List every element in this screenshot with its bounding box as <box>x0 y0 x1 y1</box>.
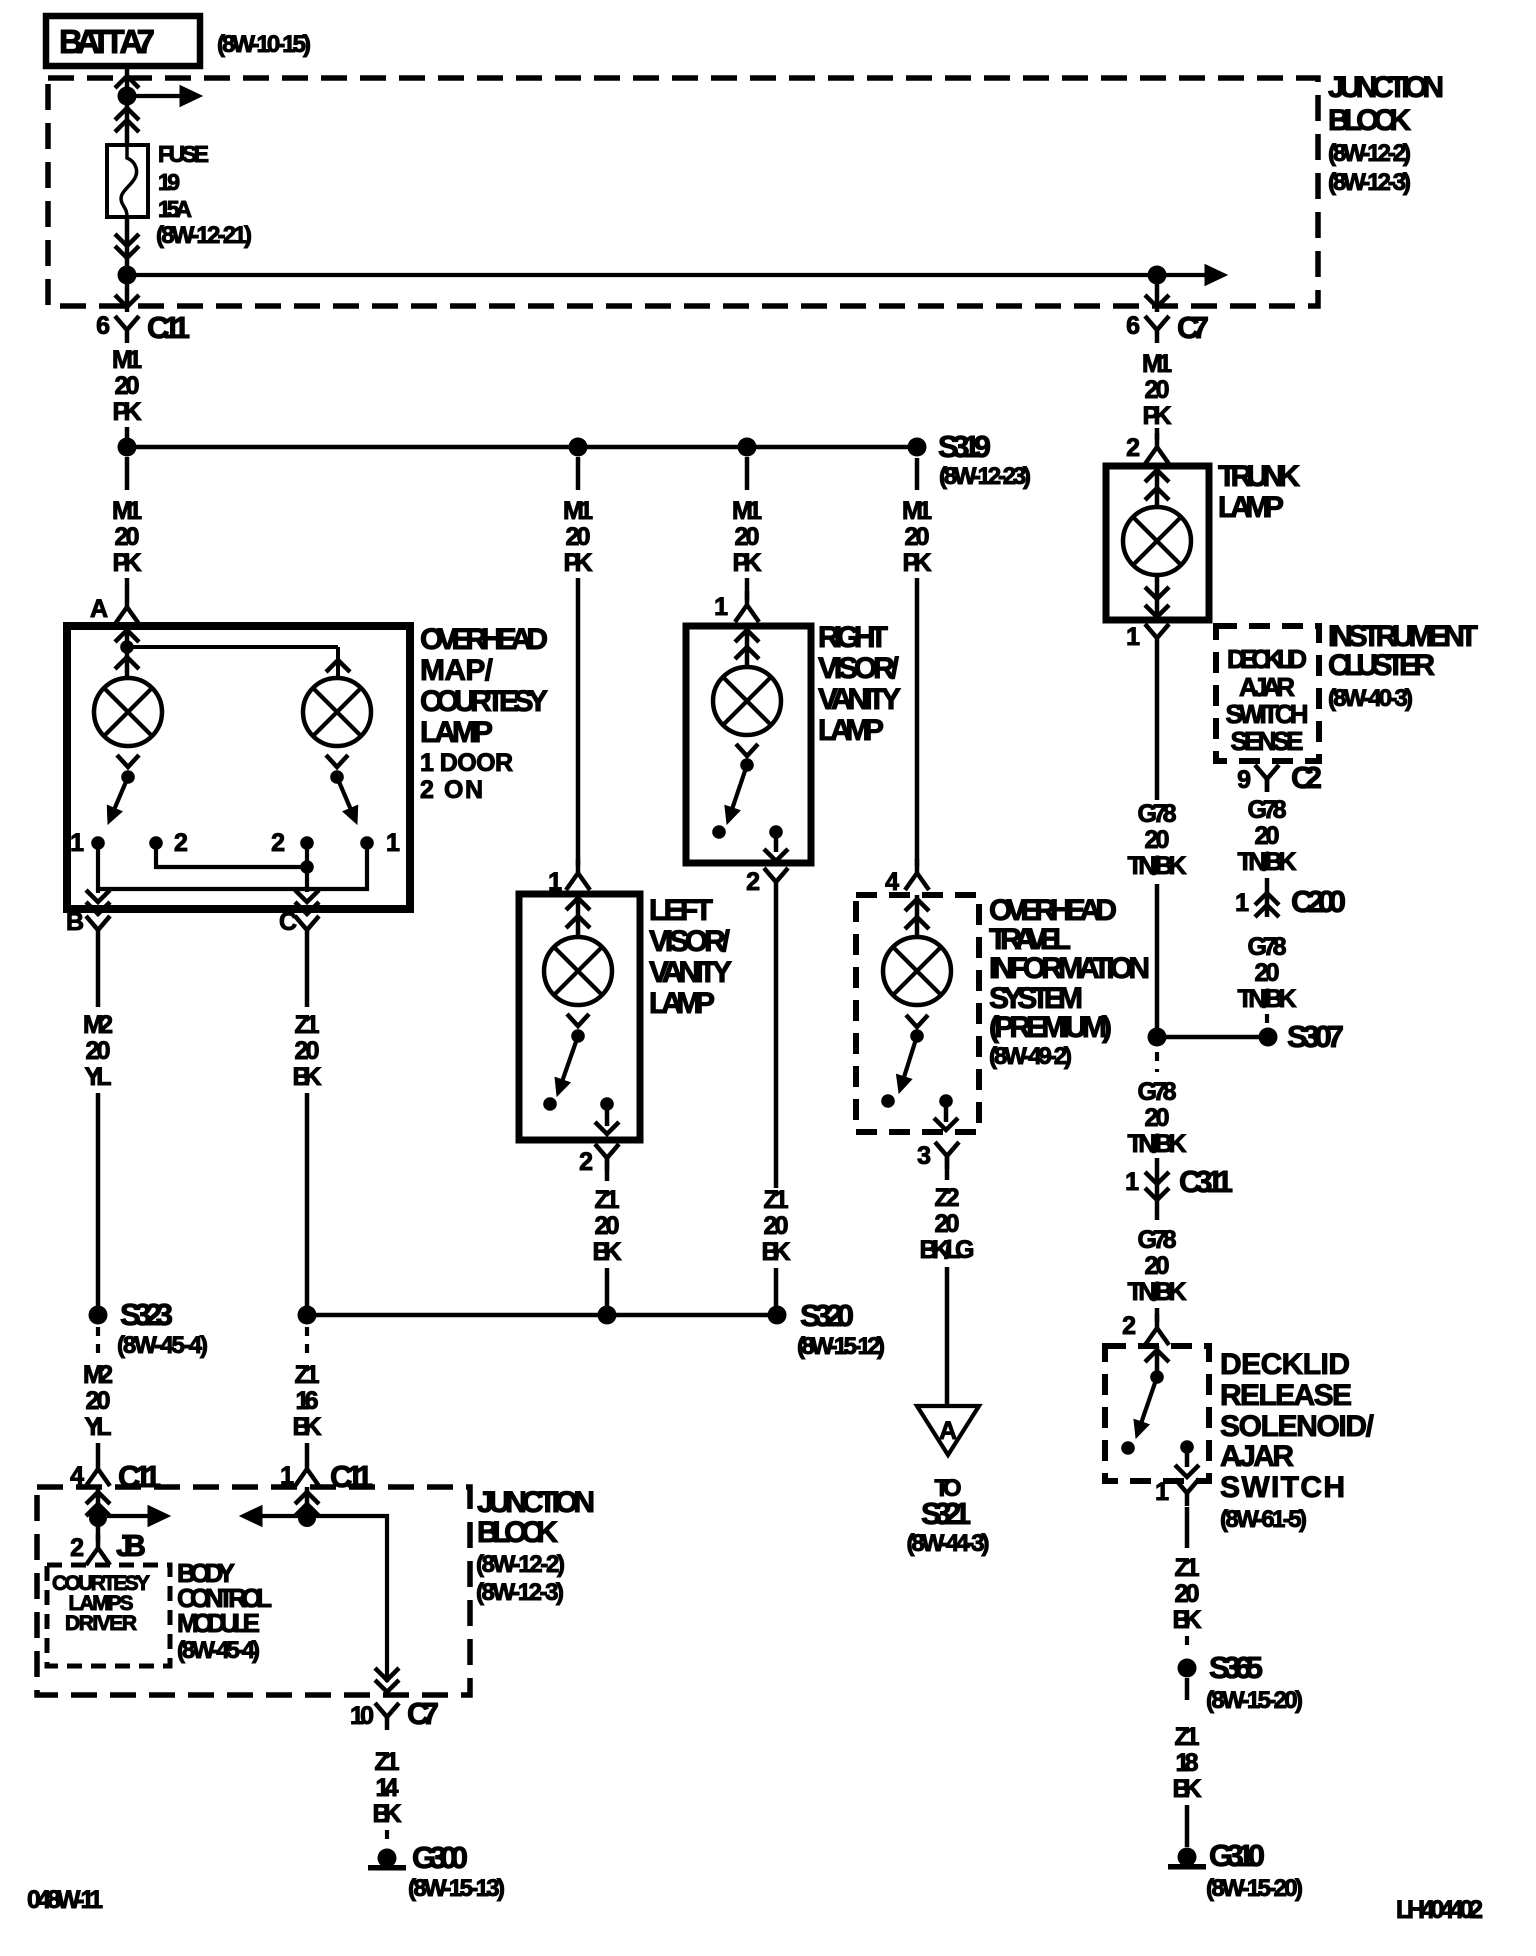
splice S365 <box>1178 1659 1197 1678</box>
svg-text:(8W-12-2): (8W-12-2) <box>1328 140 1411 167</box>
wire right visor to splice S320 <box>774 1268 779 1306</box>
splice bus M1 20 PK <box>127 445 917 450</box>
svg-text:PK: PK <box>564 549 593 577</box>
svg-text:S320: S320 <box>800 1298 854 1333</box>
svg-text:Z1: Z1 <box>764 1186 789 1214</box>
svg-text:VANITY: VANITY <box>649 956 732 989</box>
wire bus to right visor lamp <box>745 457 750 490</box>
svg-text:MAP/: MAP/ <box>420 654 494 687</box>
svg-text:G78: G78 <box>1138 1226 1177 1254</box>
svg-text:(8W-44-3): (8W-44-3) <box>907 1530 990 1557</box>
svg-text:(8W-12-23): (8W-12-23) <box>939 463 1031 490</box>
svg-text:TN/BK: TN/BK <box>1128 1130 1187 1158</box>
wire (dashed) to S307 <box>1265 1014 1269 1027</box>
svg-text:BK: BK <box>762 1238 791 1266</box>
instrument cluster dashed box <box>1216 626 1319 761</box>
internal chevron above node <box>115 630 139 642</box>
svg-text:BLOCK: BLOCK <box>1328 104 1411 137</box>
svg-text:Z1: Z1 <box>295 1011 320 1039</box>
svg-text:20: 20 <box>1145 1252 1170 1280</box>
wire B down <box>96 943 101 1007</box>
svg-text:C7: C7 <box>407 1696 439 1731</box>
svg-text:048W-11: 048W-11 <box>27 1886 103 1914</box>
wire left visor to ground bus <box>605 1268 610 1306</box>
off-page connector triangle A <box>917 1406 979 1455</box>
svg-text:20: 20 <box>1145 1104 1170 1132</box>
svg-text:C200: C200 <box>1291 884 1346 919</box>
svg-text:19: 19 <box>158 169 180 195</box>
internal wire to C7 pin 10 <box>307 1516 387 1682</box>
svg-text:(8W-10-15): (8W-10-15) <box>217 31 311 58</box>
svg-text:G310: G310 <box>1209 1838 1265 1873</box>
svg-text:1: 1 <box>714 593 728 621</box>
svg-text:2: 2 <box>579 1148 593 1176</box>
svg-text:B: B <box>66 908 84 936</box>
svg-text:2: 2 <box>174 829 188 857</box>
ground bus Z1 <box>307 1313 778 1318</box>
svg-text:10: 10 <box>350 1702 374 1730</box>
svg-text:G300: G300 <box>412 1840 468 1875</box>
svg-text:20: 20 <box>595 1212 620 1240</box>
svg-text:20: 20 <box>1175 1580 1200 1608</box>
internal chevron right branch <box>326 660 350 672</box>
decklid terminal 1 <box>1180 1440 1194 1454</box>
decklid release solenoid/ajar switch dashed box <box>1105 1346 1209 1481</box>
svg-text:(8W-12-3): (8W-12-3) <box>476 1579 564 1606</box>
svg-text:G78: G78 <box>1248 933 1287 961</box>
wire right visor exit down <box>774 895 779 1188</box>
internal double chevron <box>1145 470 1169 482</box>
svg-text:TN/BK: TN/BK <box>1128 1278 1187 1306</box>
svg-text:20: 20 <box>86 1037 111 1065</box>
right visor switch arm <box>732 765 747 808</box>
node bus at right visor feed <box>738 438 757 457</box>
travel info exit stem <box>944 1101 949 1122</box>
node joined 2 terminals <box>300 860 314 874</box>
fuse 19 15A <box>107 145 148 217</box>
svg-text:VISOR/: VISOR/ <box>649 925 731 958</box>
internal chevron below node <box>115 657 139 669</box>
svg-text:BLOCK: BLOCK <box>477 1516 558 1549</box>
wire below S365 <box>1185 1678 1190 1700</box>
wire from BATT A7 into junction block <box>125 66 130 145</box>
svg-text:LH404402: LH404402 <box>1396 1896 1483 1924</box>
svg-text:S365: S365 <box>1209 1650 1263 1685</box>
travel info contact chevron <box>906 1015 928 1027</box>
wire trunk lamp to splice S307 <box>1155 884 1160 1032</box>
svg-text:SWITCH: SWITCH <box>1220 1471 1345 1504</box>
left visor switch arm <box>563 1036 578 1080</box>
svg-text:1: 1 <box>1235 889 1249 917</box>
internal node A <box>120 640 134 654</box>
svg-text:TN/BK: TN/BK <box>1238 848 1297 876</box>
left visor internal feed stem <box>576 894 581 938</box>
overhead map/courtesy lamp box <box>67 626 410 909</box>
svg-text:PK: PK <box>113 398 142 426</box>
left visor/vanity lamp box <box>519 894 640 1140</box>
exit chevrons C <box>295 890 319 902</box>
wire travel info to off-page connector A <box>945 1267 950 1406</box>
node courtesy feed <box>89 1509 107 1527</box>
splice S319 <box>908 438 927 457</box>
right visor switch pivot <box>740 758 754 772</box>
right visor internal feed stem <box>745 626 750 668</box>
svg-text:PK: PK <box>1143 402 1172 430</box>
wire to C11 pin 4 <box>96 1443 101 1455</box>
svg-text:20: 20 <box>566 523 591 551</box>
svg-text:(8W-15-12): (8W-15-12) <box>797 1333 885 1360</box>
right lamp lower contact chevron <box>326 755 348 767</box>
ground G310 <box>1178 1848 1197 1867</box>
svg-text:BK: BK <box>593 1238 622 1266</box>
svg-text:M2: M2 <box>83 1011 113 1039</box>
svg-text:C2: C2 <box>1291 760 1322 795</box>
connector double chevron below feed node <box>115 108 139 120</box>
svg-text:20: 20 <box>735 523 760 551</box>
junction block (bottom) dashed outline <box>37 1487 470 1695</box>
terminal 2 right <box>300 836 314 850</box>
arrow to other loads <box>107 1514 152 1518</box>
svg-text:YL: YL <box>85 1413 112 1441</box>
left visor contact chevron <box>567 1014 589 1026</box>
svg-text:CLUSTER: CLUSTER <box>1328 649 1435 682</box>
svg-text:1 DOOR: 1 DOOR <box>420 749 513 777</box>
svg-text:2: 2 <box>1122 1312 1136 1340</box>
wire trunk lamp down <box>1155 651 1160 800</box>
svg-text:G78: G78 <box>1138 800 1177 828</box>
courtesy lamps driver dashed box <box>47 1565 170 1666</box>
overhead lamp internal feed stem <box>125 626 130 679</box>
lamp trunk <box>1123 507 1191 575</box>
svg-text:RELEASE: RELEASE <box>1220 1379 1352 1412</box>
wire S323 down (dashed) <box>96 1327 100 1361</box>
left switch arm to position 1 <box>115 777 128 808</box>
svg-text:20: 20 <box>935 1210 960 1238</box>
svg-text:LEFT: LEFT <box>649 894 713 927</box>
decklid exit chevron <box>1175 1465 1199 1477</box>
left switch pivot <box>121 770 135 784</box>
svg-text:DECKLID: DECKLID <box>1220 1348 1350 1381</box>
connector double chevron below fuse <box>115 234 139 246</box>
internal double chevron (left) <box>86 1492 110 1504</box>
svg-text:DRIVER: DRIVER <box>65 1612 137 1635</box>
right visor/vanity lamp box <box>686 626 811 863</box>
svg-text:BK: BK <box>293 1063 322 1091</box>
chevron at junction block lower boundary (left) <box>115 295 139 307</box>
svg-text:Z1: Z1 <box>595 1186 620 1214</box>
svg-text:JB: JB <box>116 1528 146 1563</box>
svg-text:LAMP: LAMP <box>420 716 493 749</box>
left visor exit stem <box>605 1104 610 1126</box>
svg-text:PK: PK <box>733 549 762 577</box>
svg-text:BK: BK <box>373 1800 402 1828</box>
internal double chevron <box>905 899 929 911</box>
lamp travel info <box>883 937 951 1005</box>
node ground path <box>298 1509 316 1527</box>
svg-text:BATT A7: BATT A7 <box>59 23 155 60</box>
BATT A7 feed box <box>46 16 200 66</box>
svg-text:C: C <box>279 908 297 936</box>
terminal 2 left <box>149 836 163 850</box>
svg-text:VANITY: VANITY <box>818 683 901 716</box>
wire (dashed) to S365 <box>1185 1636 1189 1652</box>
trunk lamp internal feed stem <box>1155 466 1160 507</box>
wire below node (dashed) to C11 pin 1 <box>305 1327 309 1361</box>
wire terminal 2 left to junction <box>156 843 307 867</box>
svg-text:BK: BK <box>1173 1775 1202 1803</box>
svg-text:(8W-49-2): (8W-49-2) <box>989 1043 1072 1070</box>
lamp left visor <box>544 937 612 1005</box>
svg-text:(8W-12-21): (8W-12-21) <box>156 222 252 249</box>
svg-text:LAMP: LAMP <box>818 714 884 747</box>
svg-text:Z2: Z2 <box>935 1184 960 1212</box>
internal wire to right lamp <box>127 645 338 649</box>
svg-text:M1: M1 <box>112 497 142 525</box>
svg-text:20: 20 <box>295 1037 320 1065</box>
svg-text:G78: G78 <box>1138 1078 1177 1106</box>
decklid internal feed stem <box>1155 1346 1160 1371</box>
chevron at junction block lower boundary (right) <box>1145 295 1169 307</box>
wire C11 to splice bus <box>125 427 130 438</box>
svg-text:4: 4 <box>885 868 899 896</box>
wire terminal 1 left to B exit <box>96 843 100 893</box>
svg-text:(8W-12-2): (8W-12-2) <box>476 1551 565 1578</box>
right visor terminal 2 <box>769 825 783 839</box>
svg-text:(8W-15-13): (8W-15-13) <box>408 1875 505 1902</box>
svg-text:(8W-61-5): (8W-61-5) <box>1220 1506 1307 1533</box>
wire bus to overhead lamp <box>125 457 130 490</box>
svg-text:S307: S307 <box>1287 1019 1344 1054</box>
trunk lamp exit stem <box>1155 575 1160 620</box>
internal exit double chevron <box>1145 587 1169 599</box>
right switch pivot <box>330 770 344 784</box>
svg-text:C11: C11 <box>147 310 190 345</box>
svg-text:FUSE: FUSE <box>158 141 209 167</box>
svg-text:(8W-40-3): (8W-40-3) <box>1328 685 1413 712</box>
svg-text:1: 1 <box>70 829 84 857</box>
travel info switch pivot <box>910 1029 924 1043</box>
wire C to ground bus <box>305 1093 310 1306</box>
wire B to S323 <box>96 1093 101 1306</box>
decklid terminal (open) <box>1121 1441 1135 1455</box>
travel info switch arm <box>904 1036 917 1077</box>
svg-text:M1: M1 <box>112 346 142 374</box>
svg-text:S321: S321 <box>921 1496 971 1531</box>
wire to decklid switch <box>1155 1308 1160 1322</box>
svg-text:18: 18 <box>1176 1749 1199 1777</box>
wire terminal 2 junction to C exit <box>305 843 309 892</box>
svg-text:VISOR/: VISOR/ <box>818 652 900 685</box>
svg-text:JUNCTION: JUNCTION <box>1328 71 1444 104</box>
node fused feed <box>118 266 137 285</box>
svg-text:3: 3 <box>917 1142 931 1170</box>
svg-text:DECKLID: DECKLID <box>1227 644 1307 674</box>
node S307 right <box>1259 1028 1278 1047</box>
travel info internal feed stem <box>915 895 920 939</box>
svg-text:AJAR: AJAR <box>1220 1440 1294 1473</box>
svg-text:M1: M1 <box>732 497 762 525</box>
svg-text:TN/BK: TN/BK <box>1128 852 1187 880</box>
svg-text:OVERHEAD: OVERHEAD <box>420 623 548 656</box>
svg-text:BK: BK <box>293 1413 322 1441</box>
svg-text:1: 1 <box>386 829 400 857</box>
svg-text:(8W-15-20): (8W-15-20) <box>1206 1687 1303 1714</box>
svg-text:M2: M2 <box>83 1361 113 1389</box>
svg-text:2: 2 <box>70 1534 84 1562</box>
wire C7 to trunk lamp <box>1155 428 1160 440</box>
node feed junction <box>118 87 137 106</box>
internal double chevron <box>735 630 759 642</box>
svg-text:TN/BK: TN/BK <box>1238 985 1297 1013</box>
svg-text:20: 20 <box>115 372 140 400</box>
left visor terminal (open) <box>543 1097 557 1111</box>
svg-text:Z1: Z1 <box>375 1748 400 1776</box>
svg-text:14: 14 <box>376 1774 399 1802</box>
svg-text:TRUNK: TRUNK <box>1218 460 1300 493</box>
svg-text:AJAR: AJAR <box>1239 672 1295 702</box>
right visor terminal (open) <box>712 825 726 839</box>
svg-text:A: A <box>90 595 108 623</box>
svg-text:C7: C7 <box>1177 310 1209 345</box>
wire (dashed) to G300 <box>385 1830 389 1846</box>
exit chevron C7 pin 10 <box>375 1668 399 1680</box>
wire S307 down (dashed) <box>1155 1052 1159 1072</box>
lamp right (courtesy) <box>303 678 371 746</box>
svg-text:PK: PK <box>113 549 142 577</box>
decklid switch pivot <box>1150 1370 1164 1384</box>
svg-text:2: 2 <box>746 868 760 896</box>
svg-text:(8W-45-4): (8W-45-4) <box>117 1332 208 1359</box>
svg-text:20: 20 <box>1255 959 1280 987</box>
splice S323 <box>89 1306 108 1325</box>
travel info terminal (open) <box>881 1094 895 1108</box>
svg-text:20: 20 <box>115 523 140 551</box>
svg-text:JUNCTION: JUNCTION <box>477 1486 595 1519</box>
svg-text:S319: S319 <box>938 429 991 464</box>
svg-text:LAMP: LAMP <box>649 987 715 1020</box>
decklid exit stem <box>1185 1447 1190 1467</box>
svg-text:M1: M1 <box>563 497 593 525</box>
svg-text:G78: G78 <box>1248 796 1287 824</box>
wire to C200 <box>1265 878 1270 917</box>
wire to travel info system <box>915 578 920 866</box>
internal chevron <box>1145 1350 1169 1362</box>
wire S319 down <box>915 458 920 490</box>
svg-text:6: 6 <box>1126 312 1140 340</box>
svg-text:2 ON: 2 ON <box>420 776 483 804</box>
node bus at overhead lamp feed <box>118 438 137 457</box>
feed arrow to other circuits (right) <box>1166 273 1209 277</box>
svg-text:1: 1 <box>1155 1478 1169 1506</box>
svg-text:1: 1 <box>1125 1168 1139 1196</box>
svg-text:BK: BK <box>1173 1606 1202 1634</box>
svg-text:M1: M1 <box>1142 350 1172 378</box>
svg-text:MODULE: MODULE <box>177 1608 260 1638</box>
travel info exit chevron <box>934 1118 958 1130</box>
feed arrow to other circuits <box>136 94 184 98</box>
right visor contact chevron <box>736 744 758 756</box>
trunk lamp box <box>1106 466 1209 620</box>
ground G300 <box>378 1849 397 1868</box>
left visor switch pivot <box>571 1029 585 1043</box>
svg-text:16: 16 <box>296 1387 319 1415</box>
arrow from other loads <box>258 1514 307 1518</box>
right visor exit chevron <box>764 849 788 861</box>
lamp left (courtesy) <box>94 678 162 746</box>
node Z1 ground bus left <box>298 1306 317 1325</box>
splice bus S307 <box>1157 1035 1268 1040</box>
svg-text:LAMP: LAMP <box>1218 491 1284 524</box>
wire C11 pin 6 drop <box>125 275 130 312</box>
right switch arm to position 1 <box>337 777 350 808</box>
wire to left visor lamp <box>576 578 581 866</box>
svg-text:(8W-12-3): (8W-12-3) <box>1328 169 1411 196</box>
svg-text:2: 2 <box>271 829 285 857</box>
svg-text:(8W-45-4): (8W-45-4) <box>177 1637 260 1664</box>
travel info terminal 3 <box>939 1094 953 1108</box>
connector chevron at junction block boundary <box>115 76 139 88</box>
svg-text:15A: 15A <box>158 196 192 222</box>
svg-text:Z1: Z1 <box>295 1361 320 1389</box>
svg-text:20: 20 <box>1255 822 1280 850</box>
svg-text:(PREMIUM): (PREMIUM) <box>989 1011 1112 1044</box>
wire to ground G310 <box>1185 1805 1190 1847</box>
internal double chevron <box>566 898 590 910</box>
svg-text:20: 20 <box>1145 826 1170 854</box>
entry stem C11 pin 1 <box>305 1487 310 1518</box>
svg-text:20: 20 <box>86 1387 111 1415</box>
svg-text:BK/LG: BK/LG <box>920 1236 975 1264</box>
svg-text:SWITCH: SWITCH <box>1226 699 1309 729</box>
svg-text:PK: PK <box>903 549 932 577</box>
lamp right visor <box>713 667 781 735</box>
left lamp lower contact chevron <box>117 755 139 767</box>
svg-text:6: 6 <box>96 312 110 340</box>
svg-text:A: A <box>939 1417 957 1445</box>
svg-text:YL: YL <box>85 1063 112 1091</box>
terminal 1 right <box>360 836 374 850</box>
right visor exit stem <box>774 832 779 852</box>
wire decklid switch down <box>1185 1507 1190 1548</box>
svg-text:(8W-15-20): (8W-15-20) <box>1206 1875 1303 1902</box>
wire C down <box>305 943 310 1007</box>
svg-text:20: 20 <box>764 1212 789 1240</box>
svg-text:Z1: Z1 <box>1175 1554 1200 1582</box>
left visor exit chevron <box>595 1122 619 1134</box>
decklid switch arm <box>1142 1377 1157 1422</box>
svg-text:Z1: Z1 <box>1175 1723 1200 1751</box>
terminal 1 left <box>91 836 105 850</box>
internal double chevron (middle) <box>295 1492 319 1504</box>
node S307 left <box>1148 1028 1167 1047</box>
splice S320 <box>768 1306 787 1325</box>
wire fuse to distribution node <box>125 217 130 275</box>
svg-text:INFORMATION: INFORMATION <box>989 952 1150 985</box>
overhead travel information system dashed box <box>856 895 979 1132</box>
svg-text:M1: M1 <box>902 497 932 525</box>
svg-text:C311: C311 <box>1179 1164 1233 1199</box>
node ground bus at left visor <box>598 1306 617 1325</box>
svg-text:SENSE: SENSE <box>1231 726 1304 756</box>
junction block (top) dashed outline <box>48 78 1318 306</box>
node bus at left visor feed <box>569 438 588 457</box>
wire fused feed bus across junction block <box>127 273 1157 277</box>
svg-text:SOLENOID/: SOLENOID/ <box>1220 1410 1375 1443</box>
svg-text:1: 1 <box>1126 623 1140 651</box>
wire to C311 <box>1155 1158 1160 1220</box>
svg-text:20: 20 <box>1145 376 1170 404</box>
wire terminal 1 right across to B exit <box>98 843 367 889</box>
